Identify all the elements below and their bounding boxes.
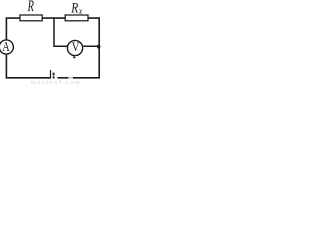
battery B1 short thick plate (negative, upper segment) <box>53 73 55 76</box>
background <box>0 0 102 85</box>
svg-text:manfen5.com: manfen5.com <box>31 79 81 85</box>
svg-text:V: V <box>72 39 80 54</box>
wire voltmeter branch (junction at top wire, down and right to voltmeter) <box>54 19 67 47</box>
svg-text:x: x <box>78 5 82 16</box>
wire faint segment (switch gap) <box>68 77 72 79</box>
battery B1 long plate (positive) <box>50 70 52 79</box>
svg-text:R: R <box>27 0 35 14</box>
wire top-left segment with top-left corner and left rail upper part <box>6 18 20 40</box>
resistor R2 (Rx) <box>65 15 88 21</box>
wire bottom right of battery <box>58 77 69 79</box>
voltmeter V (circle) <box>67 40 82 55</box>
voltmeter bottom stub with arrowhead <box>73 56 75 58</box>
resistor R1 (R) <box>20 15 42 21</box>
svg-text:R: R <box>70 0 78 16</box>
wire top-right segment, right rail, bottom-right wire <box>73 18 99 78</box>
svg-text:A: A <box>2 39 10 55</box>
label Rx <box>70 0 82 16</box>
node junction dot at right rail <box>97 45 100 49</box>
wire between R and Rx <box>43 17 66 19</box>
wire voltmeter right to right rail <box>83 45 99 47</box>
battery B1 short thick plate (negative, lower segment) <box>53 76 55 78</box>
wire left rail lower part, bottom-left corner, bottom wire to battery <box>6 55 50 78</box>
ammeter A (circle) <box>0 40 13 54</box>
